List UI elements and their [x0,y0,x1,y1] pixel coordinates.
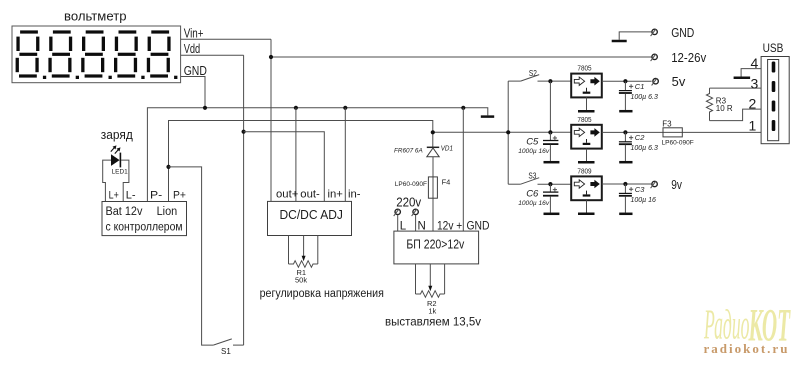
label "выставляем 13,5v" [385,315,481,329]
svg-text:100µ 16: 100µ 16 [631,197,657,204]
svg-text:USB: USB [763,41,784,55]
junction S2 out [548,79,552,83]
pin label 12v + [437,221,462,233]
switch S2 [508,75,571,82]
wire USB pin4 to ground [741,69,761,77]
svg-text:C2: C2 [635,133,645,142]
svg-text:FR607 6A: FR607 6A [394,148,423,155]
wire DC/DC in+ branch [244,132,325,202]
regulator U4 7809 [571,176,602,200]
wire USB pin2 [710,109,762,121]
junction Vdd / DC in+ branch [242,130,246,134]
wire S2 out down to node [549,81,551,132]
USB contact 3 [772,101,776,112]
U4 ground stub [578,200,595,214]
svg-text:VD1: VD1 [441,144,453,153]
svg-text:C6: C6 [526,188,539,199]
svg-text:LED1: LED1 [112,169,129,176]
wire DC/DC in- [344,108,346,202]
capacitor C5 [543,132,558,161]
svg-text:GND: GND [671,26,694,40]
pin label N [418,221,426,233]
svg-text:in+: in+ [328,189,344,201]
wire Vdd to S1 vertical [243,55,245,345]
LED LED1 cathode bar [119,153,121,168]
label F3 [662,119,672,128]
svg-text:7809: 7809 [577,167,591,176]
wire R1 left lead [288,236,290,265]
svg-text:1000µ 16v: 1000µ 16v [518,200,550,207]
value LP60-090F [395,181,427,188]
junction C5 node [548,130,552,134]
regulator U3 7805 [571,125,602,149]
wire R2 left lead [415,264,417,294]
pin label P+ [173,190,186,202]
junction rail / VD1 line [506,130,510,134]
USB contact 1 [772,62,776,73]
label R2 [427,299,437,308]
label "вольтметр" [64,9,127,24]
ground bar under C5 [544,161,560,164]
junction P+ / S1 branch [166,165,170,169]
svg-text:L+: L+ [109,190,119,202]
value 100µ 6.3 [631,145,658,152]
wire 12v rail vertical [507,81,509,184]
R2 wiper arrow [428,264,432,291]
svg-text:100µ 6.3: 100µ 6.3 [631,94,658,101]
svg-text:1: 1 [749,117,757,133]
wire DC/DC out- [295,108,297,202]
wire R2 right lead [444,264,446,294]
svg-text:GND: GND [184,64,207,78]
watermark radiokot.ru [704,341,790,356]
svg-text:P-: P- [150,190,163,202]
switch S3 [508,178,571,185]
label S1 [221,347,231,356]
pin label Vin+ [184,27,204,41]
svg-text:50k: 50k [295,276,307,285]
svg-text:10 R: 10 R [716,104,733,113]
svg-text:P+: P+ [173,190,186,202]
svg-text:Vdd: Vdd [184,42,201,56]
terminal N circle [412,209,419,231]
capacitor C1 [619,81,633,111]
label "заряд" [101,128,134,142]
terminal 12-26v [651,54,658,61]
U2 ground stub [578,97,595,111]
svg-text:4: 4 [751,55,759,71]
capacitor C6 [543,184,558,213]
svg-text:in-: in- [348,189,361,201]
svg-text:регулировка напряжения: регулировка напряжения [260,288,384,300]
label + C2 [629,133,645,142]
svg-text:1000µ 16v: 1000µ 16v [518,148,550,155]
label 220v [396,196,422,210]
pin number 3 [751,76,759,92]
pin label out- [300,189,320,201]
pin label GND [467,221,490,233]
svg-text:7805: 7805 [577,64,591,73]
label C5 [526,137,539,148]
junction DC/DC in- on bus [343,106,347,110]
svg-text:S3: S3 [528,170,536,180]
svg-text:F3: F3 [662,119,672,128]
wire R1 right lead [317,236,319,265]
wire VD1 node to rail [433,131,572,133]
pin number 1 [749,117,757,133]
pin label out+ [276,189,299,201]
svg-text:выставляем 13,5v: выставляем 13,5v [385,315,481,329]
terminal L circle [394,209,401,231]
junction PSU GND on bus [461,106,465,110]
svg-text:S1: S1 [221,347,231,356]
label R3 [716,97,727,106]
pin number 2 [749,96,757,112]
svg-text:DC/DC ADJ: DC/DC ADJ [280,208,343,222]
label 7805 (U3) [577,115,591,124]
ground symbol USB pin4 [734,77,751,80]
label F4 [442,178,451,187]
label R1 [297,268,307,277]
label + C1 [629,82,644,91]
label VD1 [441,144,453,153]
label 7809 (U4) [577,167,591,176]
label 7805 (U2) [577,64,591,73]
label + C3 [629,185,645,194]
svg-text:3: 3 [751,76,759,92]
label "регулировка напряжения" [260,288,384,300]
wire Vin+ from display [181,38,271,40]
resistor R3 zigzag [706,88,712,121]
label USB [763,41,784,55]
wire Vdd from display [181,54,244,56]
svg-text:L-: L- [126,190,136,202]
value 100µ 6.3 [631,94,658,101]
pin label P- [150,190,163,202]
wire U2 output [602,80,652,82]
USB contact 2 [772,81,776,92]
junction C1 [623,79,627,83]
7-segment digit 5 [147,30,178,79]
voltmeter display module DISP1 [12,26,181,83]
wire GND bus [147,108,487,202]
value 100µ 16 [631,197,657,204]
wire U4 output [602,183,652,185]
label C6 [526,188,539,199]
label S3 [528,170,536,180]
C5 plus sign [553,136,557,140]
svg-text:LP60-090F: LP60-090F [662,140,694,147]
terminal GND top [619,29,657,40]
value 10 R [716,104,733,113]
DC/DC converter module U1 [268,201,352,235]
diode VD1 cathode bar [427,146,439,148]
value LP60-090F [662,140,694,147]
USB connector X1 body [761,57,789,144]
battery module Bat 12v Lion [102,202,187,236]
regulator U2 7805 [571,74,602,98]
junction display GND to bus [203,106,207,110]
label GND [671,26,694,40]
wire USB pin3 [710,87,762,89]
svg-text:LP60-090F: LP60-090F [395,181,427,188]
junction Vin+ / 12-26v [269,55,273,59]
LED LED1 arrows [111,145,121,153]
svg-text:220v: 220v [396,196,422,210]
svg-text:radiokot.ru: radiokot.ru [704,341,790,356]
svg-text:12-26v: 12-26v [671,51,707,65]
wire PSU GND pin [462,108,464,231]
junction VD1 top [431,130,435,134]
wire VD1 to PSU 12v+ [432,157,434,231]
wire P+ node to VD1 [169,121,433,202]
ground bar under C6 [544,213,560,216]
watermark РадиоКОТ [703,299,791,351]
wire LED anode to L+ [103,160,111,201]
ground symbol top right [612,40,627,43]
svg-text:вольтметр: вольтметр [64,9,127,24]
svg-text:2: 2 [749,96,757,112]
7-segment digit 2 [48,30,79,79]
switch S1 blade [213,339,243,345]
value 1000µ 16v [518,148,550,155]
label LED1 [112,169,129,176]
wire U3 output to USB pin1 [602,131,761,133]
svg-text:5v: 5v [672,75,686,89]
potentiometer R1 zigzag [289,261,318,268]
pin number 4 [751,55,759,71]
svg-text:F4: F4 [442,178,451,187]
7-segment digit 3 [81,30,112,79]
capacitor C2 [619,132,633,162]
wire GND from display [181,77,205,108]
svg-text:заряд: заряд [101,128,134,142]
pin label L [400,221,407,233]
ground symbol on GND bus [481,115,494,118]
label S2 [529,68,537,78]
fuse F4 [428,177,437,198]
value FR607 6A [394,148,423,155]
value 1k [428,307,436,316]
pin label L- [126,190,136,202]
terminal 9v circle [651,181,658,188]
svg-text:7805: 7805 [577,115,591,124]
svg-text:out+: out+ [276,189,299,201]
capacitor C3 [619,184,633,214]
svg-text:Bat 12v: Bat 12v [106,206,143,218]
junction S3 out [548,182,552,186]
svg-text:C3: C3 [635,185,645,194]
svg-text:C1: C1 [635,82,645,91]
wire 12-26v rail from Vin+ node [271,56,652,58]
svg-text:S2: S2 [529,68,537,78]
pin label L+ [109,190,119,202]
pin label GND [184,64,207,78]
wire out+ vertical [270,39,272,201]
svg-text:Vin+: Vin+ [184,27,204,41]
svg-text:C5: C5 [526,137,539,148]
svg-text:с контроллером: с контроллером [106,222,183,234]
terminal 5v circle [652,78,659,85]
U3 ground stub [578,149,595,163]
LED LED1 diode triangle [111,154,120,166]
C6 plus sign [553,188,557,192]
pin label in- [348,189,361,201]
label 5v [672,75,686,89]
value 1000µ 16v [518,200,550,207]
potentiometer R2 zigzag [416,291,445,298]
svg-text:100µ 6.3: 100µ 6.3 [631,145,658,152]
svg-text:9v: 9v [671,178,682,192]
label 9v [671,178,682,192]
wire LED cathode to L- [121,160,129,201]
junction DC/DC out- on bus [294,106,298,110]
label 12-26v [671,51,707,65]
junction C2 [623,130,627,134]
fuse F3 [663,128,682,137]
pin label Vdd [184,42,201,56]
7-segment digit 4 [114,30,145,79]
R1 wiper arrow [302,236,306,262]
svg-text:Lion: Lion [157,206,178,218]
7-segment digit 1 [16,30,47,79]
junction C3 [623,182,627,186]
svg-text:БП 220>12v: БП 220>12v [406,238,465,252]
svg-text:out-: out- [300,189,320,201]
PSU module БП 220-12v [394,231,479,264]
value 50k [295,276,307,285]
diode VD1 triangle [427,148,439,157]
USB contact 4 [772,120,776,131]
wire P+ branch to S1 [169,167,214,345]
pin label in+ [328,189,344,201]
